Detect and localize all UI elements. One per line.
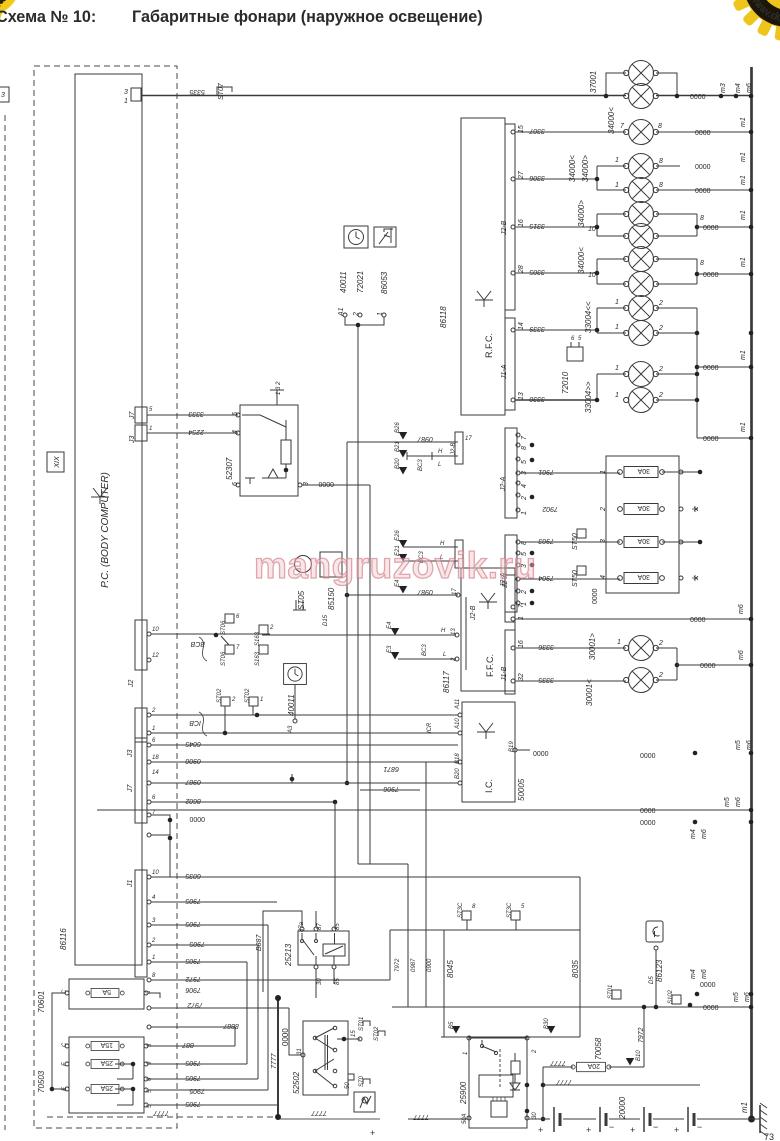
svg-text:30A: 30A xyxy=(637,504,650,511)
svg-text:30: 30 xyxy=(317,978,323,985)
svg-text:ST06: ST06 xyxy=(221,651,227,666)
svg-text:18: 18 xyxy=(152,755,159,761)
svg-text:m5: m5 xyxy=(733,992,740,1002)
svg-text:0987: 0987 xyxy=(416,435,433,442)
svg-text:887: 887 xyxy=(181,1041,194,1048)
svg-text:7: 7 xyxy=(620,123,625,130)
svg-text:R.F.C.: R.F.C. xyxy=(484,333,494,358)
svg-text:0900: 0900 xyxy=(427,958,433,972)
svg-text:6871: 6871 xyxy=(383,765,399,772)
svg-text:0000: 0000 xyxy=(690,617,706,624)
svg-text:mangruzovik.ru: mangruzovik.ru xyxy=(254,545,537,586)
svg-text:m3: m3 xyxy=(720,83,727,93)
svg-text:70601: 70601 xyxy=(37,991,46,1013)
svg-text:m1: m1 xyxy=(740,210,747,220)
svg-text:15: 15 xyxy=(518,125,525,133)
svg-text:33004>>: 33004>> xyxy=(584,381,593,413)
svg-text:m1: m1 xyxy=(740,1102,749,1113)
svg-text:8602: 8602 xyxy=(185,797,201,804)
svg-text:3333: 3333 xyxy=(188,410,204,417)
svg-text:7972: 7972 xyxy=(187,1001,203,1008)
svg-text:E26: E26 xyxy=(395,530,401,541)
svg-text:m5: m5 xyxy=(735,740,742,750)
svg-text:ST07: ST07 xyxy=(218,82,225,100)
svg-text:0000: 0000 xyxy=(533,751,549,758)
svg-text:BC3: BC3 xyxy=(422,644,428,656)
svg-text:0000: 0000 xyxy=(703,436,719,443)
svg-text:4: 4 xyxy=(521,484,528,488)
svg-text:BC3: BC3 xyxy=(418,459,424,471)
svg-text:1: 1 xyxy=(617,639,621,646)
svg-text:14: 14 xyxy=(518,322,525,330)
svg-text:4: 4 xyxy=(152,895,156,901)
svg-text:B887: B887 xyxy=(256,934,263,951)
svg-text:30: 30 xyxy=(532,1112,538,1119)
svg-text:3: 3 xyxy=(600,539,607,543)
svg-text:5: 5 xyxy=(578,336,582,342)
svg-text:+: + xyxy=(538,1125,543,1135)
svg-text:ST3C: ST3C xyxy=(507,902,513,918)
svg-text:1: 1 xyxy=(124,98,128,105)
svg-text:8: 8 xyxy=(700,260,704,267)
svg-text:7905: 7905 xyxy=(185,897,201,904)
svg-text:−: − xyxy=(697,1122,702,1132)
svg-text:H: H xyxy=(441,628,446,634)
svg-text:3315: 3315 xyxy=(529,222,545,229)
svg-text:3306: 3306 xyxy=(529,174,545,181)
svg-text:37001: 37001 xyxy=(589,71,598,93)
svg-text:52307: 52307 xyxy=(225,457,234,480)
svg-text:0000: 0000 xyxy=(703,225,719,232)
svg-text:+: + xyxy=(630,1125,635,1135)
svg-text:2: 2 xyxy=(451,657,457,662)
svg-text:2: 2 xyxy=(600,507,607,512)
svg-text:7777: 7777 xyxy=(555,1078,572,1085)
svg-text:3: 3 xyxy=(1,92,5,99)
svg-text:3: 3 xyxy=(152,918,156,924)
svg-text:85150: 85150 xyxy=(327,587,336,610)
svg-text:0000: 0000 xyxy=(695,164,711,171)
svg-text:16: 16 xyxy=(518,640,525,648)
svg-text:30001>: 30001> xyxy=(588,633,597,660)
svg-text:B21: B21 xyxy=(395,441,401,452)
svg-text:30A: 30A xyxy=(637,467,650,474)
svg-text:B30: B30 xyxy=(544,1018,550,1029)
svg-text:m1: m1 xyxy=(740,350,747,360)
svg-text:0000: 0000 xyxy=(592,588,599,604)
svg-text:+: + xyxy=(586,1125,591,1135)
svg-text:0000: 0000 xyxy=(690,94,706,101)
svg-text:2254: 2254 xyxy=(188,428,205,435)
svg-text:m1: m1 xyxy=(740,257,747,267)
svg-text:8: 8 xyxy=(472,904,476,910)
svg-text:0000: 0000 xyxy=(640,820,656,827)
svg-text:13: 13 xyxy=(518,392,525,400)
svg-text:S163: S163 xyxy=(255,631,261,646)
svg-text:85: 85 xyxy=(335,923,341,930)
svg-text:16: 16 xyxy=(518,219,525,227)
svg-text:1: 1 xyxy=(152,726,155,732)
svg-text:86117: 86117 xyxy=(442,671,451,693)
svg-text:6045: 6045 xyxy=(185,740,201,747)
svg-text:8: 8 xyxy=(659,158,663,165)
svg-text:7972: 7972 xyxy=(395,958,401,972)
svg-text:25A: 25A xyxy=(100,1059,113,1066)
svg-text:1 3 2: 1 3 2 xyxy=(276,381,282,395)
svg-text:40011: 40011 xyxy=(339,271,348,293)
svg-text:28: 28 xyxy=(518,265,525,274)
svg-text:0987: 0987 xyxy=(411,958,417,972)
svg-text:34000>: 34000> xyxy=(581,155,590,182)
svg-text:2: 2 xyxy=(658,325,663,332)
svg-text:0987: 0987 xyxy=(184,778,201,785)
svg-text:6: 6 xyxy=(571,336,575,342)
svg-text:3339: 3339 xyxy=(529,325,545,332)
svg-text:J7: J7 xyxy=(129,411,136,421)
svg-text:17: 17 xyxy=(465,436,472,442)
svg-text:25213: 25213 xyxy=(284,943,293,967)
svg-text:2: 2 xyxy=(521,590,528,595)
svg-text:8: 8 xyxy=(152,973,156,979)
svg-text:ST50: ST50 xyxy=(572,533,579,550)
svg-text:2: 2 xyxy=(521,496,528,501)
svg-text:15: 15 xyxy=(351,1030,357,1037)
svg-text:J2: J2 xyxy=(128,680,135,689)
svg-text:3335: 3335 xyxy=(538,676,554,683)
svg-text:1: 1 xyxy=(260,697,263,703)
svg-text:2: 2 xyxy=(532,1049,538,1054)
svg-text:B20: B20 xyxy=(455,768,461,779)
svg-text:J2-B: J2-B xyxy=(451,443,457,456)
svg-text:2: 2 xyxy=(658,640,663,647)
svg-text:70058: 70058 xyxy=(594,1037,603,1060)
svg-text:72010: 72010 xyxy=(561,371,570,394)
svg-text:B19: B19 xyxy=(509,741,515,752)
svg-text:15A: 15A xyxy=(100,1041,113,1048)
svg-text:17: 17 xyxy=(452,588,458,595)
svg-text:7905: 7905 xyxy=(189,940,205,947)
svg-text:m1: m1 xyxy=(740,117,747,127)
svg-text:2: 2 xyxy=(269,625,274,631)
svg-text:1: 1 xyxy=(615,324,619,331)
svg-text:B26: B26 xyxy=(395,422,401,433)
svg-text:8887: 8887 xyxy=(222,1022,239,1029)
svg-text:0000: 0000 xyxy=(703,272,719,279)
svg-text:25A: 25A xyxy=(100,1084,113,1091)
svg-text:1: 1 xyxy=(149,426,152,432)
svg-text:7906: 7906 xyxy=(383,785,399,792)
svg-text:8: 8 xyxy=(521,446,528,450)
svg-text:A1: A1 xyxy=(338,307,345,317)
svg-text:4: 4 xyxy=(600,575,607,579)
svg-text:1: 1 xyxy=(615,392,619,399)
svg-text:50005: 50005 xyxy=(517,778,526,801)
svg-text:7777: 7777 xyxy=(412,1113,429,1120)
svg-text:XIX: XIX xyxy=(54,456,61,469)
svg-text:7777: 7777 xyxy=(549,1059,566,1066)
svg-text:J1-A: J1-A xyxy=(501,364,508,380)
svg-text:6: 6 xyxy=(236,614,240,620)
svg-text:0000: 0000 xyxy=(703,365,719,372)
svg-text:72021: 72021 xyxy=(356,271,365,293)
svg-text:ST02: ST02 xyxy=(217,688,223,703)
svg-text:ST02: ST02 xyxy=(245,688,251,703)
svg-text:ST01: ST01 xyxy=(359,1017,365,1031)
svg-text:34000<: 34000< xyxy=(577,247,586,274)
svg-text:J3: J3 xyxy=(127,750,134,759)
svg-text:+: + xyxy=(674,1125,679,1135)
svg-text:86116: 86116 xyxy=(59,928,68,950)
svg-text:7905: 7905 xyxy=(185,957,201,964)
svg-text:32: 32 xyxy=(518,673,525,681)
svg-text:Габаритные фонари (наружное ос: Габаритные фонари (наружное освещение) xyxy=(132,8,483,26)
svg-text:m6: m6 xyxy=(738,604,745,614)
svg-text:ST50: ST50 xyxy=(572,570,579,587)
svg-text:7905: 7905 xyxy=(185,1059,201,1066)
svg-text:10: 10 xyxy=(152,627,159,633)
svg-text:m6: m6 xyxy=(746,83,753,93)
svg-text:5A: 5A xyxy=(102,988,111,995)
svg-text:L: L xyxy=(438,462,441,468)
svg-text:0000: 0000 xyxy=(695,188,711,195)
svg-text:7902: 7902 xyxy=(542,505,558,512)
svg-text:7972: 7972 xyxy=(638,1027,645,1043)
svg-text:0000: 0000 xyxy=(318,480,334,487)
svg-text:6: 6 xyxy=(232,482,239,486)
svg-text:7904: 7904 xyxy=(538,574,554,581)
svg-text:7: 7 xyxy=(236,645,240,651)
svg-text:6: 6 xyxy=(152,738,156,744)
svg-text:1: 1 xyxy=(521,511,528,515)
svg-text:3336: 3336 xyxy=(538,643,554,650)
svg-text:J2-A: J2-A xyxy=(500,476,507,492)
svg-text:ICR: ICR xyxy=(427,722,433,733)
svg-text:ST05: ST05 xyxy=(297,590,306,610)
svg-text:A10: A10 xyxy=(455,718,461,730)
svg-text:7905: 7905 xyxy=(185,920,201,927)
svg-text:31: 31 xyxy=(297,1048,303,1055)
svg-text:10: 10 xyxy=(152,870,159,876)
svg-text:2: 2 xyxy=(658,392,663,399)
svg-text:B20: B20 xyxy=(395,458,401,469)
svg-text:30001<: 30001< xyxy=(585,679,594,706)
svg-text:30A: 30A xyxy=(637,537,650,544)
svg-text:7905: 7905 xyxy=(189,1087,205,1094)
svg-text:2: 2 xyxy=(151,938,156,944)
svg-text:S163: S163 xyxy=(255,651,261,666)
svg-text:12: 12 xyxy=(152,653,159,659)
svg-text:6: 6 xyxy=(152,795,156,801)
svg-text:0000: 0000 xyxy=(700,663,716,670)
svg-text:J2-B: J2-B xyxy=(470,605,477,621)
svg-text:L: L xyxy=(443,652,446,658)
svg-text:A11: A11 xyxy=(455,699,461,710)
svg-text:70503: 70503 xyxy=(37,1070,46,1093)
svg-text:1: 1 xyxy=(463,1052,469,1055)
svg-text:m4: m4 xyxy=(690,829,697,839)
svg-text:m6: m6 xyxy=(701,969,708,979)
svg-text:50: 50 xyxy=(345,1082,351,1089)
svg-text:m1: m1 xyxy=(740,422,747,432)
svg-text:86118: 86118 xyxy=(439,306,448,328)
svg-text:m1: m1 xyxy=(740,152,747,162)
svg-text:J7: J7 xyxy=(127,784,134,794)
svg-text:33004<<: 33004<< xyxy=(584,301,593,333)
svg-text:1: 1 xyxy=(615,299,619,306)
svg-text:7777: 7777 xyxy=(152,1109,169,1116)
svg-text:Схема № 10:: Схема № 10: xyxy=(0,8,96,26)
svg-text:1: 1 xyxy=(518,616,525,620)
svg-text:0000: 0000 xyxy=(640,808,656,815)
svg-text:0987: 0987 xyxy=(416,588,433,595)
svg-text:7972: 7972 xyxy=(185,975,201,982)
svg-text:2: 2 xyxy=(353,312,360,317)
svg-text:8: 8 xyxy=(659,182,663,189)
svg-text:0000: 0000 xyxy=(281,1028,290,1046)
svg-text:20000: 20000 xyxy=(618,1096,627,1120)
svg-text:m6: m6 xyxy=(738,650,745,660)
svg-text:30A: 30A xyxy=(637,573,650,580)
svg-text:7901: 7901 xyxy=(538,468,554,475)
svg-text:14: 14 xyxy=(152,770,159,776)
svg-text:85: 85 xyxy=(335,978,341,985)
svg-text:ICB: ICB xyxy=(189,719,201,726)
svg-text:7905: 7905 xyxy=(185,1074,201,1081)
svg-text:7903: 7903 xyxy=(538,537,554,544)
svg-text:ST0: ST0 xyxy=(359,1075,365,1087)
svg-text:1: 1 xyxy=(615,365,619,372)
svg-text:−: − xyxy=(609,1122,614,1132)
svg-text:0000: 0000 xyxy=(640,753,656,760)
svg-text:+: + xyxy=(370,1128,375,1138)
svg-text:1: 1 xyxy=(615,157,619,164)
svg-text:73: 73 xyxy=(764,1132,774,1141)
svg-text:34000<: 34000< xyxy=(568,155,577,182)
svg-text:ST3C: ST3C xyxy=(458,902,464,918)
svg-text:J2-B: J2-B xyxy=(501,220,508,236)
svg-text:m6: m6 xyxy=(735,797,742,807)
svg-text:7: 7 xyxy=(521,435,528,440)
svg-text:J3: J3 xyxy=(129,436,136,445)
svg-text:0000: 0000 xyxy=(703,1005,719,1012)
svg-text:1: 1 xyxy=(615,182,619,189)
svg-text:7905: 7905 xyxy=(185,1100,201,1107)
svg-text:m4: m4 xyxy=(690,969,697,979)
svg-text:B5: B5 xyxy=(449,1021,455,1029)
svg-text:3: 3 xyxy=(124,89,128,96)
svg-text:2: 2 xyxy=(658,672,663,679)
svg-text:1: 1 xyxy=(377,312,384,316)
svg-text:1: 1 xyxy=(152,955,155,961)
svg-text:ST01: ST01 xyxy=(608,985,614,999)
svg-text:−: − xyxy=(653,1122,658,1132)
svg-text:27: 27 xyxy=(518,170,525,180)
svg-text:m5: m5 xyxy=(724,797,731,807)
svg-text:8045: 8045 xyxy=(446,960,455,978)
svg-text:13: 13 xyxy=(451,628,457,635)
svg-text:I.C.: I.C. xyxy=(484,779,494,793)
svg-text:m1: m1 xyxy=(740,175,747,185)
svg-text:25900: 25900 xyxy=(459,1081,468,1105)
svg-text:0000: 0000 xyxy=(189,815,205,822)
svg-text:2: 2 xyxy=(151,708,156,714)
svg-text:52502: 52502 xyxy=(292,1071,301,1094)
svg-text:5: 5 xyxy=(149,407,153,413)
svg-text:2: 2 xyxy=(231,697,236,703)
svg-text:87: 87 xyxy=(317,923,323,930)
svg-text:0000: 0000 xyxy=(700,982,716,989)
svg-text:10: 10 xyxy=(588,272,596,279)
svg-text:2: 2 xyxy=(658,366,663,373)
svg-text:86053: 86053 xyxy=(380,271,389,294)
svg-text:B10: B10 xyxy=(636,1050,642,1061)
svg-text:34000<: 34000< xyxy=(607,107,616,134)
svg-text:5: 5 xyxy=(521,904,525,910)
svg-text:E4: E4 xyxy=(387,621,393,629)
svg-text:7777: 7777 xyxy=(271,1052,278,1069)
svg-text:5: 5 xyxy=(521,460,528,464)
svg-text:H: H xyxy=(438,449,443,455)
svg-text:3307: 3307 xyxy=(528,127,545,134)
svg-text:D15: D15 xyxy=(323,614,329,626)
svg-text:D5: D5 xyxy=(649,976,655,984)
svg-text:S102: S102 xyxy=(668,989,674,1004)
svg-text:3305: 3305 xyxy=(529,268,545,275)
svg-text:2: 2 xyxy=(658,300,663,307)
svg-text:8: 8 xyxy=(658,123,662,130)
svg-text:J1-B: J1-B xyxy=(501,666,508,682)
svg-text:6035: 6035 xyxy=(185,872,201,879)
svg-text:ST06: ST06 xyxy=(221,620,227,635)
svg-text:8: 8 xyxy=(700,215,704,222)
svg-text:J1: J1 xyxy=(127,880,134,889)
svg-text:ST02: ST02 xyxy=(374,1026,380,1041)
svg-text:3330: 3330 xyxy=(529,395,545,402)
svg-text:m6: m6 xyxy=(746,740,753,750)
svg-text:1: 1 xyxy=(600,470,607,474)
svg-text:m6: m6 xyxy=(701,829,708,839)
svg-text:7777: 7777 xyxy=(310,1109,327,1116)
svg-text:34000>: 34000> xyxy=(577,200,586,227)
svg-text:5335: 5335 xyxy=(189,88,205,95)
svg-text:8035: 8035 xyxy=(571,960,580,978)
svg-text:F.F.C.: F.F.C. xyxy=(485,654,495,677)
svg-text:E3: E3 xyxy=(387,645,393,653)
svg-text:7906: 7906 xyxy=(185,986,201,993)
svg-text:0000: 0000 xyxy=(695,130,711,137)
svg-text:20A: 20A xyxy=(587,1062,600,1069)
svg-text:0900: 0900 xyxy=(185,757,201,764)
svg-text:10: 10 xyxy=(588,226,596,233)
svg-text:m4: m4 xyxy=(735,83,742,93)
